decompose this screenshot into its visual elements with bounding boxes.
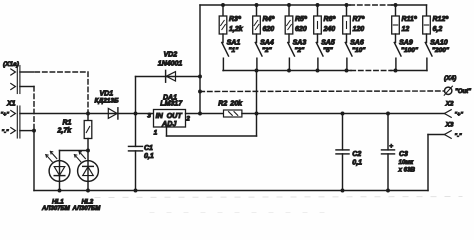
svg-text:6,2: 6,2: [433, 26, 443, 33]
svg-text:R2: R2: [218, 101, 227, 108]
svg-text:SA5: SA5: [321, 40, 335, 47]
svg-text:"100": "100": [401, 47, 419, 54]
svg-text:3: 3: [147, 112, 151, 119]
svg-text:C3: C3: [399, 151, 408, 158]
svg-text:"Out": "Out": [455, 89, 471, 95]
svg-text:1,2k: 1,2k: [229, 26, 244, 33]
svg-text:R3*: R3*: [229, 16, 241, 23]
svg-text:120: 120: [353, 26, 365, 33]
svg-text:"200": "200": [432, 47, 450, 54]
svg-text:R5*: R5*: [295, 16, 307, 23]
svg-text:Х1: Х1: [6, 101, 16, 108]
svg-text:SA9: SA9: [399, 40, 413, 47]
svg-text:"-": "-": [455, 133, 462, 139]
svg-text:20k: 20k: [229, 101, 243, 108]
svg-text:"+": "+": [455, 112, 464, 118]
svg-text:VD2: VD2: [164, 52, 178, 59]
svg-text:HL1: HL1: [52, 198, 64, 205]
svg-text:HL2: HL2: [82, 198, 94, 205]
svg-text:+: +: [389, 143, 393, 150]
svg-text:R12*: R12*: [433, 16, 449, 23]
svg-text:R7*: R7*: [353, 16, 365, 23]
svg-text:SA10: SA10: [430, 40, 448, 47]
svg-text:0,1: 0,1: [144, 153, 154, 160]
svg-text:1N4001: 1N4001: [158, 60, 183, 67]
svg-text:0,1: 0,1: [352, 159, 362, 166]
svg-text:SA1: SA1: [227, 40, 241, 47]
svg-text:"2": "2": [294, 47, 305, 54]
svg-text:620: 620: [295, 26, 307, 33]
svg-text:2,7k: 2,7k: [57, 128, 73, 135]
svg-text:"1": "1": [228, 47, 239, 54]
svg-text:"+": "+": [1, 112, 10, 118]
svg-text:ADJ: ADJ: [161, 119, 177, 128]
svg-text:Х2: Х2: [445, 100, 454, 107]
svg-text:LM317: LM317: [160, 101, 183, 108]
svg-text:620: 620: [263, 26, 275, 33]
svg-text:SA3: SA3: [293, 40, 307, 47]
svg-text:240: 240: [323, 26, 336, 33]
svg-text:R6*: R6*: [324, 16, 336, 23]
svg-text:(Х4): (Х4): [444, 75, 456, 82]
svg-text:"10": "10": [352, 47, 366, 54]
svg-text:R11*: R11*: [402, 16, 417, 23]
svg-text:"5": "5": [323, 47, 334, 54]
svg-text:(Х1а): (Х1а): [3, 61, 19, 68]
svg-text:C2: C2: [352, 151, 361, 158]
svg-text:х 63В: х 63В: [398, 167, 416, 174]
svg-text:R1: R1: [63, 120, 72, 127]
svg-text:12: 12: [402, 26, 410, 33]
svg-text:Х3: Х3: [445, 122, 454, 129]
svg-text:АЛ307БМ: АЛ307БМ: [41, 206, 71, 212]
svg-text:C1: C1: [144, 145, 153, 152]
svg-text:АЛ307БМ: АЛ307БМ: [72, 206, 102, 212]
svg-text:10мк: 10мк: [399, 159, 414, 166]
svg-text:SA6: SA6: [350, 40, 364, 47]
svg-text:КД213Б: КД213Б: [95, 97, 120, 104]
svg-text:SA4: SA4: [260, 40, 274, 47]
svg-text:"-": "-": [2, 129, 9, 135]
svg-text:R4*: R4*: [263, 16, 275, 23]
svg-text:1: 1: [154, 129, 158, 136]
svg-text:"2": "2": [262, 47, 273, 54]
svg-text:2: 2: [185, 115, 190, 122]
